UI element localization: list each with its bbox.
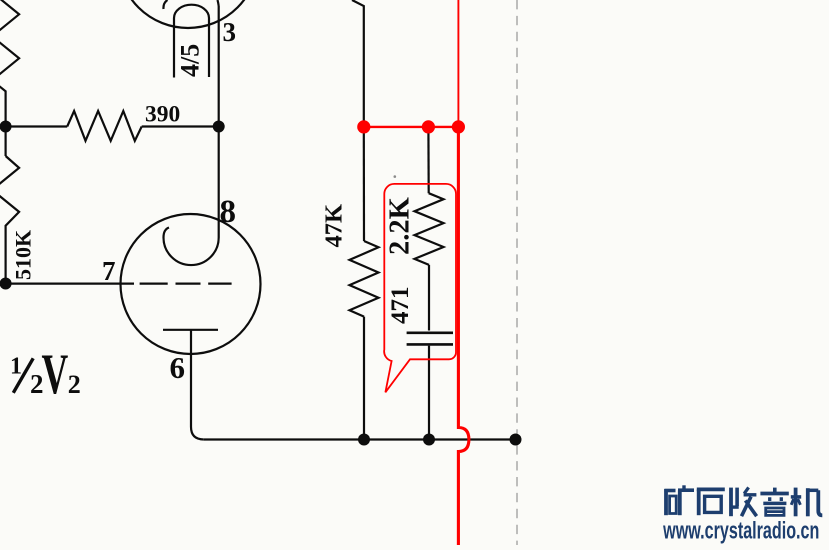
bottom ground rail wire (204, 438, 516, 440)
upper tube V1 envelope (cut off at top edge) (118, 0, 258, 28)
red junction dot on B+ bus (452, 120, 465, 133)
heater hairpin pins 4/5 (174, 5, 209, 78)
node B junction dot (plate node) (213, 121, 225, 133)
capacitor C 471 plates (407, 333, 453, 345)
watermark char shi (697, 487, 725, 491)
junction dot 47K to ground rail (358, 434, 370, 446)
svg-text:www.crystalradio.cn: www.crystalradio.cn (662, 517, 819, 544)
resistor R 390 (67, 111, 142, 141)
plate hook stubs of upper tube V1 (163, 0, 218, 9)
node A junction dot (0, 121, 12, 133)
wire resistor 390 to node B (142, 125, 219, 127)
dashed chassis boundary line (516, 0, 518, 545)
node C junction dot (grid divider tap) (0, 278, 12, 290)
svg-text:390: 390 (145, 101, 180, 127)
wire resistor 47K to bottom rail (363, 317, 365, 440)
wire node A down to R 510K (4, 127, 6, 157)
plate hook of tube V2 (164, 228, 219, 266)
svg-text:V: V (42, 343, 69, 406)
node D red junction dot (357, 120, 370, 133)
watermark char kuang (664, 489, 668, 515)
svg-text:510K: 510K (11, 230, 36, 280)
svg-text:471: 471 (387, 287, 414, 325)
svg-text:8: 8 (220, 194, 237, 230)
svg-text:7: 7 (102, 256, 116, 286)
svg-text:6: 6 (170, 350, 186, 385)
red B+ bus vertical wire with hop over ground rail (458, 127, 469, 545)
red B+ bus vertical wire upper thin segment (457, 0, 459, 127)
tube V2 envelope (121, 214, 261, 354)
junction dot ground rail to chassis line (510, 434, 522, 446)
cathode wire pin 6 down and corner to ground rail (191, 330, 204, 440)
resistor R 510K (0, 156, 19, 284)
watermark char shou (729, 488, 733, 517)
wire resistor 2.2K to capacitor 471 (428, 265, 430, 331)
wire from top edge to node D (47K branch) (352, 0, 364, 127)
tube designator label 1/2 V2 (10, 343, 81, 406)
cathode electrode of V2 (163, 329, 218, 331)
wire grid pin 7 from node C (6, 283, 134, 285)
node E red junction dot (422, 120, 435, 133)
svg-text:2.2K: 2.2K (385, 197, 416, 255)
wire capacitor 471 to bottom rail (428, 346, 430, 440)
wire node A to resistor 390 (6, 125, 68, 127)
resistor R-upper-left (plate load, cut off at top edge) (0, 0, 19, 126)
grid (dashed electrode) of V2 (140, 283, 232, 285)
wire node E to resistor 2.2K (427, 127, 430, 193)
svg-text:3: 3 (223, 17, 237, 47)
junction dot capacitor 471 to ground rail (423, 434, 435, 446)
resistor R 2.2K (415, 193, 444, 265)
svg-text:4/5: 4/5 (176, 44, 205, 77)
speck artifact (394, 175, 397, 178)
watermark char yin (773, 488, 777, 493)
svg-text:2: 2 (68, 370, 81, 399)
svg-text:1: 1 (10, 354, 22, 380)
wire node D to resistor 47K (363, 127, 365, 241)
watermark logo text (664, 485, 822, 516)
red callout bubble around 2.2K / 471 (384, 184, 456, 392)
resistor R 47K (350, 241, 379, 317)
wire pin 3 (upper tube) through node B to pin 8 plate of V2 (218, 6, 220, 238)
svg-text:47K: 47K (321, 204, 348, 248)
red wire node D to B+ bus (364, 126, 459, 128)
watermark char ji (794, 488, 798, 517)
